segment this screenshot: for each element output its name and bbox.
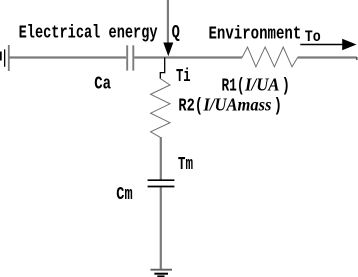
ground bar 1 (widest) xyxy=(151,269,173,271)
svg-text:R2(: R2( xyxy=(178,97,203,117)
wire: left horizontal segment xyxy=(8,56,126,58)
svg-text:Environment: Environment xyxy=(209,25,302,45)
wire: middle horizontal segment xyxy=(134,56,242,58)
svg-text:Ti: Ti xyxy=(176,67,191,87)
left-edge battery plate (thin tall) xyxy=(4,49,5,66)
svg-text:I/UAmass: I/UAmass xyxy=(203,95,272,115)
svg-text:To: To xyxy=(305,28,321,46)
resistor R1 zigzag xyxy=(242,47,298,67)
right-edge terminal tick xyxy=(356,57,358,60)
svg-text:I/UA: I/UA xyxy=(244,75,279,95)
arrowhead Q (heat flow into node Ti) xyxy=(163,43,173,57)
left-edge battery plate (thick, cut off) xyxy=(0,52,2,61)
capacitor Ca left plate xyxy=(126,45,128,70)
capacitor Cm bottom plate xyxy=(148,186,175,188)
wire: vertical segment from Cm bottom plate to ground xyxy=(160,187,162,269)
capacitor Cm top plate xyxy=(148,179,175,181)
connector from node Ti down to R2 (jogged) xyxy=(160,58,164,79)
left terminal plate (gray) xyxy=(8,45,10,71)
svg-text:Cm: Cm xyxy=(116,185,132,205)
svg-text:Q: Q xyxy=(172,23,180,43)
svg-text:R1(: R1( xyxy=(222,77,245,97)
capacitor Ca right plate xyxy=(132,45,134,70)
svg-text:Ca: Ca xyxy=(94,75,111,95)
svg-text:Tm: Tm xyxy=(178,155,193,175)
wire: right horizontal segment xyxy=(298,56,357,58)
To output arrowhead xyxy=(342,39,356,50)
svg-text:Electrical energy: Electrical energy xyxy=(19,23,158,43)
To output arrow shaft xyxy=(300,44,345,46)
svg-text:): ) xyxy=(282,77,290,97)
wire: vertical heat-input line from top xyxy=(167,0,169,45)
ground bar 2 xyxy=(154,273,168,275)
wire: vertical segment from R2 to Cm top plate xyxy=(160,137,162,180)
ground bar 3 xyxy=(157,275,164,277)
svg-text:): ) xyxy=(274,97,282,117)
resistor R2 zigzag xyxy=(151,79,170,138)
